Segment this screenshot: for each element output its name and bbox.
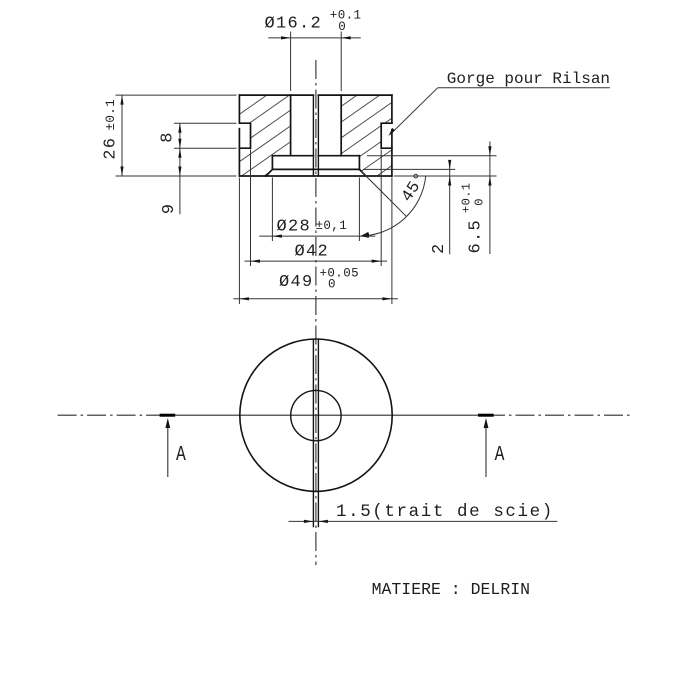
svg-text:Ø49: Ø49 <box>279 273 314 292</box>
dimension 2 extension line <box>363 163 455 255</box>
counterbore ceiling left segment <box>272 155 313 157</box>
groove right notch outline <box>381 123 392 148</box>
svg-text:6.5: 6.5 <box>467 219 486 254</box>
dimension 2 arrows <box>448 160 451 170</box>
chamfer far-side edge line <box>272 168 359 170</box>
hatching right material region <box>225 34 400 315</box>
svg-text:0: 0 <box>338 20 346 34</box>
dimension 1.5 arrows <box>304 520 314 523</box>
section view part outline <box>239 95 392 176</box>
section mark A left arrow stem <box>167 426 169 477</box>
saw slit walls in section <box>313 95 318 176</box>
svg-text:8: 8 <box>159 132 178 142</box>
dimension 6.5 arrows <box>488 146 491 156</box>
section mark A right arrow stem <box>485 426 487 477</box>
section mark A right arrowhead <box>484 418 489 428</box>
svg-text:1.5(trait de scie): 1.5(trait de scie) <box>336 502 554 522</box>
svg-text:Ø42: Ø42 <box>295 242 330 261</box>
svg-text:26: 26 <box>102 137 121 160</box>
vertical centerline <box>315 60 317 565</box>
dimension 26 line <box>121 95 123 176</box>
svg-text:±0,1: ±0,1 <box>316 219 348 233</box>
leader Gorge pour Rilsan arrowhead <box>388 128 395 136</box>
dimension 8 / 9 extension lines <box>174 123 237 214</box>
section mark A right thick tick <box>478 414 494 417</box>
bottom face <box>239 175 392 177</box>
horizontal centerline middle solid <box>168 414 486 416</box>
hole Ø16.2 right wall <box>340 95 342 156</box>
dimension Ø28 extension lines <box>259 178 375 242</box>
leader Gorge pour Rilsan diagonal <box>390 88 438 135</box>
svg-text:9: 9 <box>160 204 179 214</box>
dimension Ø42 arrows <box>251 260 261 263</box>
bottom view outer circle Ø49 <box>240 339 392 491</box>
svg-text:+0.1: +0.1 <box>460 183 474 213</box>
bottom view inner circle Ø16.2 <box>291 390 341 440</box>
dimension 1.5 trait de scie line <box>289 520 558 522</box>
outer edge left lower (resumes inside groove) <box>238 129 240 176</box>
hatching left material region <box>225 2 400 298</box>
svg-text:Ø16.2: Ø16.2 <box>265 14 323 33</box>
horizontal centerline right dash-dot <box>486 414 630 416</box>
dimension 6.5 line <box>489 142 491 255</box>
leader Gorge pour Rilsan underline <box>438 87 610 89</box>
dimension Ø49 extension lines <box>233 178 398 305</box>
section mark A left arrowhead <box>165 418 170 428</box>
svg-text:±0.1: ±0.1 <box>104 99 118 131</box>
dimension Ø16.2 arrows <box>281 36 291 39</box>
dimension Ø42 extension lines <box>245 150 388 267</box>
counterbore Ø28 left wall <box>271 156 273 170</box>
section mark A left thick tick <box>160 414 176 417</box>
svg-text:MATIERE : DELRIN: MATIERE : DELRIN <box>372 580 530 599</box>
horizontal centerline left dash-dot <box>58 414 168 416</box>
dimension Ø16.2 extension lines <box>268 32 361 92</box>
groove left notch outline <box>239 123 250 148</box>
counterbore ceiling right segment <box>318 155 359 157</box>
dimension 8/9 line <box>179 123 181 214</box>
dimension Ø49 arrows <box>239 297 249 300</box>
dimension Ø49 line <box>233 298 398 300</box>
dimension 9 arrows <box>178 148 181 158</box>
svg-text:Ø28: Ø28 <box>277 217 312 236</box>
outer edge right upper <box>391 95 393 123</box>
svg-text:A: A <box>495 443 505 467</box>
dimension 26 extension lines <box>116 95 237 176</box>
outer edge right lower (resumes inside groove) <box>391 130 393 176</box>
bottom view saw slit walls <box>313 339 318 527</box>
dimension 45 degrees arrow <box>361 232 370 236</box>
dimension 8 arrows <box>178 123 181 133</box>
dimension 26 arrows <box>120 95 123 105</box>
dimension Ø28 line <box>259 235 375 237</box>
chamfer 45 right <box>359 169 366 176</box>
svg-text:A: A <box>176 443 186 467</box>
top face right of slit <box>318 94 392 96</box>
hole Ø16.2 left wall <box>290 95 292 156</box>
svg-text:0: 0 <box>328 278 336 292</box>
dimension Ø42 line <box>245 260 388 262</box>
top face left of slit <box>239 94 313 96</box>
dimension Ø28 arrows <box>272 235 282 238</box>
svg-text:2: 2 <box>430 244 449 254</box>
chamfer 45 left <box>266 169 273 176</box>
counterbore Ø28 right wall <box>358 156 360 170</box>
dimension 6.5 extension lines <box>367 142 497 255</box>
dimension 45 degrees arc <box>361 176 426 236</box>
svg-text:Gorge pour Rilsan: Gorge pour Rilsan <box>447 70 610 88</box>
dimension 45 degrees chamfer extension line <box>362 172 407 217</box>
outer edge left upper <box>238 95 240 123</box>
svg-text:+0.05: +0.05 <box>320 266 360 280</box>
dimension 2 line <box>449 163 451 255</box>
dimension Ø16.2 line <box>268 37 361 39</box>
svg-text:0: 0 <box>473 199 487 206</box>
